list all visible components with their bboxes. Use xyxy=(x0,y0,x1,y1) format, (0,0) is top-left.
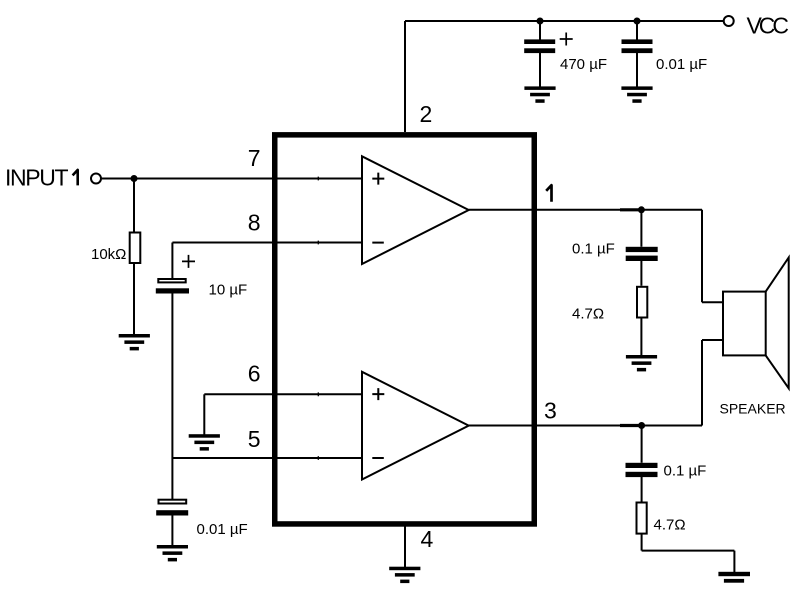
svg-text:4.7Ω: 4.7Ω xyxy=(654,517,686,534)
svg-text:5: 5 xyxy=(248,426,261,452)
svg-text:0.1 µF: 0.1 µF xyxy=(572,241,615,258)
svg-text:4.7Ω: 4.7Ω xyxy=(572,306,604,323)
svg-text:8: 8 xyxy=(248,210,261,236)
svg-text:10 µF: 10 µF xyxy=(209,282,248,299)
svg-text:470 µF: 470 µF xyxy=(560,56,607,73)
svg-text:0.01 µF: 0.01 µF xyxy=(656,56,707,73)
svg-text:VCC: VCC xyxy=(747,13,790,39)
svg-text:6: 6 xyxy=(248,361,261,387)
svg-text:7: 7 xyxy=(248,145,261,171)
svg-text:0.1 µF: 0.1 µF xyxy=(664,463,707,480)
svg-text:0.01 µF: 0.01 µF xyxy=(197,521,248,538)
svg-text:4: 4 xyxy=(421,526,434,552)
svg-text:SPEAKER: SPEAKER xyxy=(720,401,786,417)
svg-text:3: 3 xyxy=(544,398,557,424)
svg-text:2: 2 xyxy=(420,101,433,127)
svg-text:INPUT: INPUT xyxy=(5,165,69,191)
svg-text:10kΩ: 10kΩ xyxy=(91,246,126,263)
